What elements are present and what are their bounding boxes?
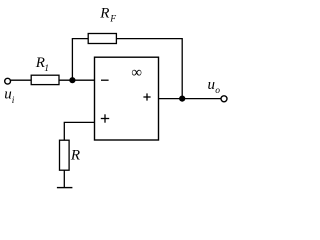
- svg-text:∞: ∞: [131, 65, 142, 81]
- ground: [57, 187, 73, 189]
- svg-text:1: 1: [44, 64, 49, 74]
- svg-text:u: u: [4, 87, 12, 103]
- wire R to ground: [63, 170, 65, 187]
- wire non-inverting input (horizontal then down to R): [64, 122, 94, 140]
- resistor R1: [31, 75, 59, 84]
- resistor RF: [88, 34, 116, 44]
- svg-text:F: F: [109, 14, 116, 24]
- resistor R: [60, 140, 70, 170]
- wire R1 to op-amp inverting input: [59, 79, 95, 81]
- label R1: [35, 55, 49, 74]
- wire feedback top right segment: [116, 38, 182, 40]
- node B junction dot at output: [179, 96, 185, 102]
- svg-text:u: u: [208, 77, 216, 93]
- svg-text:o: o: [215, 86, 220, 96]
- terminal uo (output open circle): [221, 96, 227, 102]
- node A junction dot at inverting input: [69, 77, 75, 83]
- svg-text:R: R: [70, 147, 80, 163]
- svg-text:R: R: [99, 6, 109, 22]
- terminal ui (input open circle): [5, 78, 11, 84]
- wire feedback top left segment: [72, 38, 88, 40]
- wire op-amp output to terminal: [159, 98, 221, 100]
- wire input terminal to R1: [11, 79, 32, 81]
- op-amp output plus sign: [143, 93, 150, 100]
- wire feedback right vertical: [181, 38, 183, 99]
- op-amp inverting input minus sign: [101, 79, 109, 81]
- label ui: [4, 87, 14, 106]
- svg-text:i: i: [12, 96, 15, 106]
- op-amp non-inverting input plus sign: [101, 114, 109, 122]
- label RF: [99, 6, 116, 25]
- label uo: [208, 77, 221, 96]
- op-amp U1 body rectangle: [95, 57, 159, 140]
- wire feedback left vertical: [71, 39, 73, 81]
